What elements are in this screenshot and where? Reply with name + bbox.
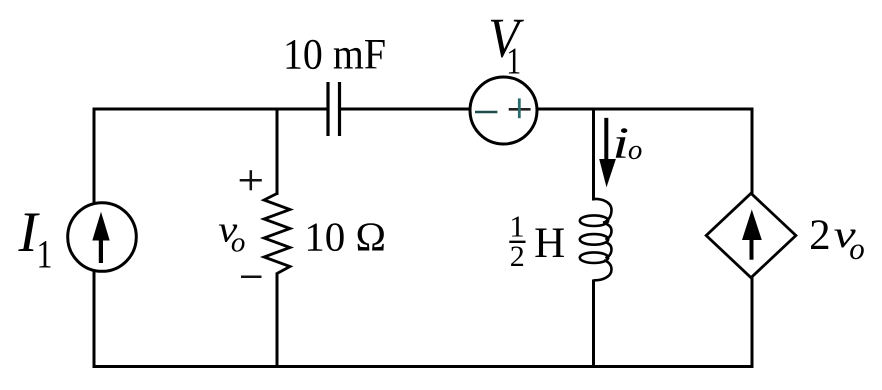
svg-text:1: 1 [506,41,521,83]
svg-text:10 mF: 10 mF [283,31,386,78]
svg-text:o: o [628,134,643,166]
svg-text:10 Ω: 10 Ω [304,213,386,259]
svg-text:i: i [612,119,629,168]
svg-text:1: 1 [37,231,53,276]
svg-text:1: 1 [509,209,525,244]
svg-text:2: 2 [809,212,831,259]
svg-text:o: o [849,231,865,266]
svg-text:o: o [231,227,246,259]
svg-text:2: 2 [510,240,525,273]
svg-text:H: H [534,220,565,267]
